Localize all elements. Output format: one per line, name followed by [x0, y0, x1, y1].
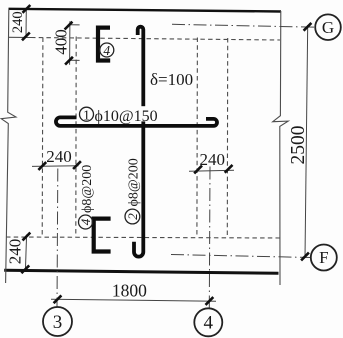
- wall inner face bottom (dashed): [6, 237, 280, 238]
- tick: [206, 297, 214, 305]
- label bar 4: circled 4 + phi8@200 (rotated): [79, 215, 93, 229]
- svg-text:F: F: [319, 248, 328, 267]
- tick: [65, 57, 73, 65]
- axis F line (dash-dot): [171, 255, 311, 258]
- svg-text:1: 1: [83, 108, 90, 123]
- svg-text:2: 2: [125, 213, 140, 220]
- rebar bar 4 top bracket: [98, 28, 110, 61]
- svg-text:ϕ10@150: ϕ10@150: [95, 108, 158, 125]
- tick: [301, 253, 309, 261]
- text knockout over bar 2: [139, 106, 148, 121]
- axis 3 line (dash-dot): [56, 169, 59, 308]
- svg-text:2500: 2500: [288, 126, 309, 165]
- wall top face line: [9, 9, 282, 12]
- svg-text:4: 4: [204, 313, 214, 334]
- rebar bar 2 vertical with hooks: [134, 27, 143, 257]
- left break line with zigzag: [1, 10, 16, 284]
- tick: [21, 265, 29, 273]
- label circled 4 (top bracket): [100, 43, 114, 57]
- dimension 240 mid-right: line: [189, 169, 234, 172]
- tick: [65, 22, 73, 30]
- dimension 240 bottom-left: line: [25, 235, 26, 271]
- tick: [23, 5, 31, 13]
- svg-text:1800: 1800: [112, 281, 147, 301]
- tick: [54, 295, 62, 303]
- label bar 1: circled 1 + phi10@150: [80, 107, 94, 121]
- tick: [304, 23, 312, 31]
- axis bubble G: [315, 14, 341, 40]
- axis bubble F: [311, 245, 337, 271]
- axis bubble 4: [194, 308, 222, 336]
- rebar bar 4 bottom bracket: [94, 219, 111, 252]
- tick: [194, 166, 202, 174]
- wall inner face top (dashed): [9, 36, 31, 38]
- right break line with zigzag: [273, 11, 289, 285]
- label bar 2: circled 2 + phi8@200 (rotated): [125, 209, 140, 224]
- svg-text:400: 400: [51, 29, 70, 55]
- dimension 400: line: [69, 21, 71, 64]
- tick: [73, 161, 81, 169]
- dimension 240 top-left: line: [25, 9, 27, 37]
- tick: [225, 165, 233, 173]
- tick: [23, 233, 31, 241]
- axis G line (dash-dot): [172, 24, 315, 27]
- svg-text:240: 240: [10, 11, 26, 33]
- svg-text:240: 240: [6, 239, 25, 265]
- dimension 1800: line: [51, 299, 216, 301]
- svg-text:G: G: [322, 18, 334, 37]
- svg-text:4: 4: [103, 43, 110, 58]
- axis 4 line (dash-dot): [208, 167, 211, 309]
- wall face vertical dashed x=43: [41, 38, 44, 238]
- tick: [22, 33, 30, 41]
- svg-text:3: 3: [53, 312, 63, 333]
- wall bottom face line: [4, 270, 278, 273]
- svg-text:ϕ8@200: ϕ8@200: [80, 165, 95, 213]
- wall face vertical dashed x=76: [75, 37, 77, 238]
- extension seg top: [70, 24, 80, 26]
- tick: [38, 162, 46, 170]
- wall face vertical dashed x=227: [226, 38, 228, 238]
- dimension 2500: line: [305, 25, 308, 258]
- svg-text:4: 4: [78, 218, 93, 225]
- extension seg bottom: [70, 59, 80, 61]
- dimension 240 mid-left: line: [32, 165, 79, 168]
- rebar bar 1 horizontal with hooks: [56, 117, 217, 126]
- svg-text:δ=100: δ=100: [150, 70, 193, 89]
- svg-text:240: 240: [46, 147, 72, 166]
- svg-text:ϕ8@200: ϕ8@200: [126, 158, 141, 206]
- svg-text:240: 240: [200, 150, 226, 169]
- axis bubble 3: [43, 307, 72, 336]
- wall face vertical dashed x=197: [196, 38, 199, 238]
